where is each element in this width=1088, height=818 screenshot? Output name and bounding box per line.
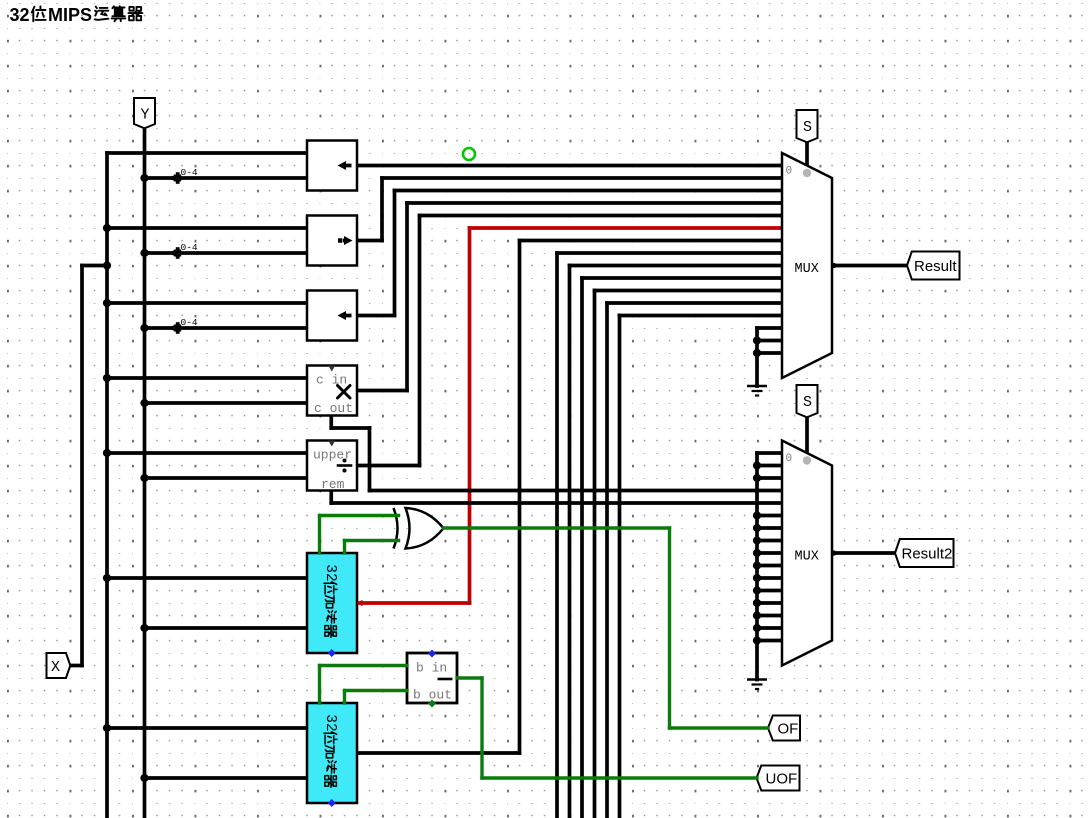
svg-text:c out: c out xyxy=(314,401,353,416)
wire MUX2 ground stub (y=453.0) xyxy=(757,451,782,455)
svg-text:S: S xyxy=(803,119,812,136)
MUX2 select dot xyxy=(803,456,811,464)
junction gnd1 y=353.0 xyxy=(753,349,761,357)
wire MUX2 out to Result2 (y=553) xyxy=(832,551,895,555)
xor gate G1 xyxy=(406,508,444,549)
shifter U1 shift-left xyxy=(307,141,357,191)
svg-text:32: 32 xyxy=(10,5,30,25)
wire MUX2 ground stub (y=628.0) xyxy=(757,626,782,630)
wire divider-out riser (x=419.5) xyxy=(418,216,422,466)
divider symbol bar xyxy=(338,464,351,467)
multiplier X symbol stroke1 xyxy=(338,386,351,399)
adder A2 32-bit (cyan) xyxy=(307,703,357,803)
wire green adder2 top1 riser xyxy=(318,666,321,704)
svg-text:c in: c in xyxy=(316,373,347,388)
output pin OF xyxy=(768,716,800,741)
ground symbol for MUX1 unused inputs xyxy=(747,385,767,388)
junction gnd1 y=340.5 xyxy=(753,336,761,344)
wire green adder2 top2 riser xyxy=(343,691,346,704)
junction Y-bus y=778.0 xyxy=(140,774,148,782)
wire MUX2 ground stub (y=578.0) xyxy=(757,576,782,580)
wire MUX2 ground riser (x=757) xyxy=(755,453,759,680)
svg-text:UOF: UOF xyxy=(766,771,798,788)
wire MUX1 out to Result (y=265.5) xyxy=(832,264,907,268)
svg-text:Y: Y xyxy=(140,107,149,124)
wire shifter1 out to MUX1 in0 (y=165.5) xyxy=(357,164,782,168)
wire divider input A (y=453) xyxy=(107,451,307,455)
probe green circle xyxy=(463,148,475,160)
wire green adder1 top2 riser xyxy=(343,541,346,554)
wire green b-in (y=665.5) xyxy=(320,664,408,667)
wire bus-bundle vertical #2 (x=569.5) xyxy=(568,266,572,818)
MUX2 output nub xyxy=(831,550,836,555)
borrow box U6 xyxy=(407,653,457,703)
wire bus-bundle vertical #1 (x=557.0) xyxy=(555,253,559,818)
wire MUX2 in3 from mult c-out (y=490.5) xyxy=(370,489,783,493)
wire MUX1 in1 (y=178) xyxy=(382,176,782,180)
wire MUX1 ground stub (y=328.0) xyxy=(757,326,782,330)
divider U5 xyxy=(307,441,357,491)
divider symbol dot top xyxy=(343,459,347,463)
wire shifter2 input A (y=228) xyxy=(107,226,307,230)
wire S1 select xyxy=(805,142,809,167)
wire multiplier input A (y=378) xyxy=(107,376,307,380)
divider symbol dot bottom xyxy=(343,469,347,473)
junction X-bus y=453.0 xyxy=(103,449,111,457)
wire divider out (y=465.5) xyxy=(357,464,420,468)
junction X-bus y=578.0 xyxy=(103,574,111,582)
wire MUX2 ground stub (y=565.5) xyxy=(757,564,782,568)
wire multiplier c-out stub xyxy=(329,416,333,429)
junction X-bus y=265.5 xyxy=(103,261,111,269)
wire MUX2 ground stub (y=603.0) xyxy=(757,601,782,605)
svg-text:Result: Result xyxy=(914,258,957,275)
wire MUX1 in2 (y=190.5) xyxy=(395,189,783,193)
svg-text:Result2: Result2 xyxy=(902,546,953,563)
svg-text:MUX: MUX xyxy=(795,262,819,277)
multiplier X symbol stroke2 xyxy=(338,386,351,399)
wire MUX1 in10 (y=290.5) xyxy=(595,289,783,293)
junction X-bus y=228.0 xyxy=(103,224,111,232)
marker blue diamond b-box top xyxy=(428,650,436,658)
output pin UOF xyxy=(757,766,800,791)
marker blue diamond adder1 bottom xyxy=(328,649,336,657)
wire green XOR in1 (y=515.5) xyxy=(320,514,399,517)
wire bus-bundle vertical #3 (x=582.0) xyxy=(580,278,584,818)
MUX1 output nub xyxy=(831,263,836,268)
output pin Result xyxy=(907,252,960,280)
junction gnd2 y=515.5 xyxy=(753,511,761,519)
wire shifter3-out riser (x=394.5) xyxy=(393,191,397,316)
marker green diamond b-box bottom xyxy=(428,700,436,708)
wire MUX1 in5 red (y=228) xyxy=(470,226,783,230)
svg-text:b in: b in xyxy=(416,661,447,676)
svg-text:X: X xyxy=(51,659,60,676)
wire MUX1 in7 (y=253.0) xyxy=(557,251,782,255)
wire shifter3 input dist 0-4 (y=328) xyxy=(145,326,308,330)
svg-text:32: 32 xyxy=(322,564,338,581)
wire green to UOF (y=778) xyxy=(482,776,757,779)
input pin Y xyxy=(134,98,155,128)
wire MUX1 in6 (y=240.5) xyxy=(520,239,783,243)
shifter U3 shift-left2 xyxy=(307,291,357,341)
wire green to OF (y=728) xyxy=(670,726,769,729)
junction X-bus y=378.0 xyxy=(103,374,111,382)
wire MUX1 ground stub (y=340.5) xyxy=(757,339,782,343)
multiplexer MUX1 xyxy=(782,153,832,378)
svg-text:0-4: 0-4 xyxy=(181,167,198,178)
wire shifter2 input dist 0-4 (y=253) xyxy=(145,251,308,255)
wire X distribution bus (vertical x=107) xyxy=(105,153,109,818)
svg-text:OF: OF xyxy=(778,721,799,738)
wire green b-box out (y=678) xyxy=(457,676,482,679)
wire shifter2-out riser (x=382) xyxy=(380,178,384,241)
wire MUX1 ground riser (x=757) xyxy=(755,328,759,386)
wire MUX2 ground stub (y=590.5) xyxy=(757,589,782,593)
svg-text:MIPS: MIPS xyxy=(48,5,92,25)
wire multiplier out (y=390.5) xyxy=(357,389,407,393)
junction X-bus y=303.0 xyxy=(103,299,111,307)
svg-text:32: 32 xyxy=(322,714,338,731)
junction gnd2 y=553.0 xyxy=(753,549,761,557)
input pin S1 xyxy=(797,110,818,142)
multiplexer MUX2 xyxy=(782,441,832,666)
wire MUX2 ground stub (y=640.5) xyxy=(757,639,782,643)
borrow box minus symbol xyxy=(438,678,453,681)
wire MUX2 ground stub (y=515.5) xyxy=(757,514,782,518)
junction X-bus y=728.0 xyxy=(103,724,111,732)
junction gnd2 y=565.5 xyxy=(753,561,761,569)
wire green XOR in2 (y=540.5) xyxy=(345,539,399,542)
wire divider rem stub xyxy=(329,491,333,504)
wire MUX1 in8 (y=265.5) xyxy=(570,264,783,268)
svg-text:MUX: MUX xyxy=(795,550,819,565)
wire MUX1 in3 (y=203) xyxy=(407,201,782,205)
junction gnd2 y=528.0 xyxy=(753,524,761,532)
junction gnd2 y=640.5 xyxy=(753,636,761,644)
junction Y-bus y=328.0 xyxy=(140,324,148,332)
wire adder2-out riser (x=519.5) xyxy=(518,241,522,754)
wire adder2 out (y=753) xyxy=(357,751,520,755)
wire MUX2 ground stub (y=465.5) xyxy=(757,464,782,468)
wire X pin stub (y=665.5) xyxy=(70,664,82,668)
wire mult c-out riser (x=369.5) xyxy=(368,428,372,491)
junction gnd2 y=590.5 xyxy=(753,586,761,594)
wire MUX1 in12 (y=315.5) xyxy=(620,314,783,318)
marker red port adder1 xyxy=(357,600,363,606)
multiplier U4 xyxy=(307,366,357,416)
junction gnd2 y=615.5 xyxy=(753,611,761,619)
ground symbol for MUX2 unused inputs xyxy=(747,678,767,681)
wire shifter3 out (y=315.5) xyxy=(357,314,395,318)
junction Y-bus y=628.0 xyxy=(140,624,148,632)
input pin S2 xyxy=(797,385,818,417)
junction Y-bus y=178.0 xyxy=(140,174,148,182)
junction Y-bus y=253.0 xyxy=(140,249,148,257)
wire multiplier-out riser (x=407) xyxy=(405,203,409,391)
junction gnd2 y=578.0 xyxy=(753,574,761,582)
wire green adder1 top1 riser xyxy=(318,516,321,554)
svg-text:0: 0 xyxy=(786,166,793,178)
splitter 0-4 arrow (y=253.0) xyxy=(167,250,176,257)
wire MUX2 ground stub (y=553.0) xyxy=(757,551,782,555)
wire green b-out-left (y=690.5) xyxy=(345,689,408,692)
splitter 0-4 arrow (y=178.0) xyxy=(167,175,176,182)
wire shifter1 input A (y=153) xyxy=(107,151,307,155)
wire bus-bundle vertical #6 (x=619.5) xyxy=(618,316,622,818)
junction gnd2 y=603.0 xyxy=(753,599,761,607)
wire Y distribution bus (vertical x=144.5) xyxy=(143,128,147,818)
wire shifter2 out (y=240.5) xyxy=(357,239,382,243)
wire adder1 out red (y=603) xyxy=(360,601,470,605)
svg-text:0-4: 0-4 xyxy=(181,317,198,328)
shifter U2 shift-right xyxy=(307,216,357,266)
junction Y-bus y=478.0 xyxy=(140,474,148,482)
svg-text:S: S xyxy=(803,394,812,411)
wire MUX1 in11 (y=303.0) xyxy=(607,301,782,305)
wire adder2 input A (y=728) xyxy=(107,726,307,730)
wire green OF riser (x=669.5) xyxy=(668,528,671,728)
marker blue diamond adder2 bottom xyxy=(328,799,336,807)
wire MUX1 in9 (y=278.0) xyxy=(582,276,782,280)
wire adder1 carry-out riser (red, x=469.5) xyxy=(468,228,472,603)
wire MUX1 in4 (y=215.5) xyxy=(420,214,783,218)
wire X pin riser (x=82) xyxy=(80,266,84,666)
MUX1 select dot xyxy=(803,169,811,177)
adder A1 32-bit (cyan) xyxy=(307,553,357,653)
wire shifter3 input A (y=303) xyxy=(107,301,307,305)
wire MUX1 ground stub (y=353.0) xyxy=(757,351,782,355)
svg-text:rem: rem xyxy=(321,477,345,492)
wire MUX2 ground stub (y=540.5) xyxy=(757,539,782,543)
junction gnd2 y=628.0 xyxy=(753,624,761,632)
wire bus-bundle vertical #4 (x=594.5) xyxy=(593,291,597,818)
junction Y-bus y=403.0 xyxy=(140,399,148,407)
junction gnd2 y=465.5 xyxy=(753,461,761,469)
wire adder1 input B (y=628) xyxy=(145,626,308,630)
wire multiplier input B (y=403) xyxy=(145,401,308,405)
wire MUX2 ground stub (y=478.0) xyxy=(757,476,782,480)
junction gnd2 y=478.0 xyxy=(753,474,761,482)
svg-text:upper: upper xyxy=(313,448,352,463)
wire divider input B (y=478) xyxy=(145,476,308,480)
wire S2 select xyxy=(805,417,809,454)
svg-text:0-4: 0-4 xyxy=(181,242,198,253)
wire MUX2 in4 from div rem (y=503) xyxy=(331,501,782,505)
junction gnd2 y=540.5 xyxy=(753,536,761,544)
wire shifter1 input dist 0-4 (y=178) xyxy=(145,176,308,180)
output pin Result2 xyxy=(895,539,954,567)
input pin X xyxy=(47,653,71,678)
wire green UOF riser (x=482) xyxy=(480,678,483,778)
wire MUX2 ground stub (y=615.5) xyxy=(757,614,782,618)
wire mult c-out jog (y=428) xyxy=(331,426,369,430)
wire bus-bundle vertical #5 (x=607.0) xyxy=(605,303,609,818)
wire adder2 input B (y=778) xyxy=(145,776,308,780)
wire MUX2 ground stub (y=528.0) xyxy=(757,526,782,530)
svg-text:0: 0 xyxy=(786,453,793,465)
wire adder1 input A (y=578) xyxy=(107,576,307,580)
wire green XOR out (y=528) xyxy=(444,526,670,529)
wire X pin tap to bus (y=265.5) xyxy=(82,264,107,268)
splitter 0-4 arrow (y=328.0) xyxy=(167,325,176,332)
